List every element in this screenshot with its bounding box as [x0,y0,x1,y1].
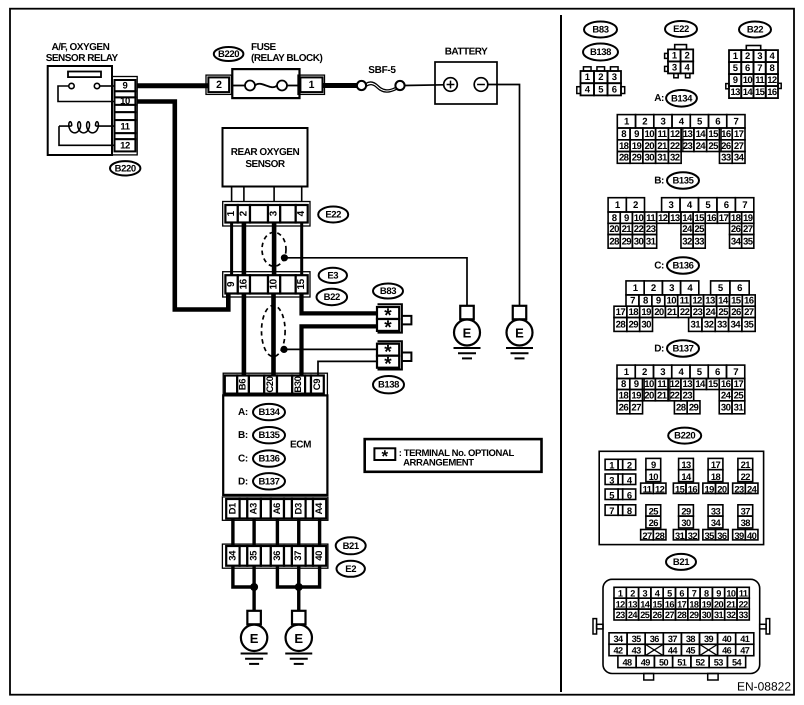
svg-text:37: 37 [668,634,678,644]
svg-text:19: 19 [632,141,642,152]
svg-text:A/F, OXYGEN: A/F, OXYGEN [51,42,109,53]
svg-text:16: 16 [721,129,731,140]
svg-text:30: 30 [721,402,731,413]
wire B21 pin36 to junction [277,566,298,587]
svg-text:3: 3 [668,200,673,211]
svg-text:6: 6 [627,489,632,500]
wire E22 pin2 to B22 pin16 [242,223,247,276]
svg-text:10: 10 [644,379,654,390]
shield junction node (upper) [281,255,287,261]
svg-text:20: 20 [644,390,654,401]
wire B21 pin37 to ground E [297,566,300,611]
svg-text:20: 20 [717,483,727,494]
sensor lead stubs to E22 [232,187,302,202]
svg-text:3: 3 [642,588,647,598]
pinout label B22 [739,22,771,38]
svg-text:*: * [384,318,392,339]
svg-text:2: 2 [238,210,249,216]
svg-text:10: 10 [726,588,736,598]
connector row B21 (pins 34 35 36 37 40) [222,544,328,568]
svg-text:12: 12 [616,599,626,609]
svg-text:24: 24 [706,307,717,318]
svg-text:10: 10 [644,129,654,140]
svg-text:25: 25 [649,506,659,517]
svg-text:9: 9 [624,213,629,224]
svg-text:8: 8 [627,505,632,516]
wire B21 pin40 to junction [299,566,320,587]
svg-text:11: 11 [657,379,667,390]
svg-text:3: 3 [757,51,762,62]
pinout connector E22 (4 pin) [665,45,694,78]
svg-text:B30: B30 [293,376,304,392]
svg-text:44: 44 [668,646,679,656]
svg-text:30: 30 [634,236,644,247]
svg-text:A3: A3 [249,503,260,514]
battery BAT1 [435,47,497,105]
svg-text:17: 17 [711,459,721,470]
rear oxygen sensor box [223,128,308,187]
pinout label B138 [583,44,618,61]
svg-text:24: 24 [747,483,758,494]
svg-text:15: 15 [694,213,705,224]
svg-text:9: 9 [634,379,639,390]
svg-text:30: 30 [641,320,651,331]
svg-text:FUSE: FUSE [251,42,277,53]
connector label B220 (fuse block) [214,47,244,61]
svg-text:27: 27 [743,224,753,235]
svg-text:B22: B22 [747,25,763,36]
svg-text:28: 28 [655,530,665,541]
svg-text:REAR OXYGEN: REAR OXYGEN [231,147,300,158]
svg-text:12: 12 [658,213,668,224]
relay K1 switch contacts [58,83,115,101]
connector B83 (schematic, optional terminals) [377,304,411,338]
connector label B220 (relay) [110,161,140,175]
svg-text:16: 16 [744,296,754,307]
svg-text:37: 37 [741,506,751,517]
svg-text:2: 2 [642,367,647,378]
svg-text:E22: E22 [673,24,689,35]
svg-text:SENSOR RELAY: SENSOR RELAY [46,53,119,64]
svg-text:12: 12 [655,483,665,494]
ECM connector key D: B137 [238,473,285,489]
svg-text:24: 24 [721,390,732,401]
svg-text:3: 3 [612,72,617,83]
svg-text:34: 34 [734,153,745,164]
svg-text:3: 3 [269,210,280,216]
svg-text:12: 12 [692,296,702,307]
svg-text:B220: B220 [115,163,136,174]
wire E22 pin3 to B22 pin10 [272,223,277,276]
svg-text:2: 2 [216,79,222,91]
pinout label B83 [584,22,617,38]
fuse terminal 2 [206,75,231,94]
svg-text:21: 21 [622,224,633,235]
wire fuse terminal 1 to fusible link SBF-5 [323,83,358,88]
svg-text:35: 35 [249,550,260,561]
relay K1 coil [59,122,115,146]
svg-text:16: 16 [707,213,717,224]
svg-text:45: 45 [686,646,696,656]
svg-text:14: 14 [640,599,651,609]
wire B22 pin15 to B83 pin 1 [302,294,378,314]
svg-text:51: 51 [677,657,687,667]
svg-text:34: 34 [614,634,625,644]
svg-text:33: 33 [721,153,731,164]
svg-text:24: 24 [628,610,639,620]
shield junction node (lower) [281,346,287,352]
fuse F1 in relay block [232,69,299,98]
svg-text:26: 26 [653,610,663,620]
svg-text:B138: B138 [378,380,399,391]
svg-text:2: 2 [627,460,632,471]
pinout grid B136 [614,281,755,332]
svg-text:9: 9 [651,459,656,470]
svg-text:16: 16 [721,379,731,390]
svg-text:2: 2 [642,116,647,127]
junction node (pins 34/35) [251,584,258,591]
svg-text:B:: B: [238,430,248,441]
svg-text:13: 13 [730,87,740,98]
svg-text:B135: B135 [672,176,694,187]
svg-text:37: 37 [293,551,304,561]
svg-text:34: 34 [227,550,238,561]
svg-text:16: 16 [238,278,249,289]
svg-text:25: 25 [708,141,719,152]
svg-text:B220: B220 [218,49,239,60]
svg-text:7: 7 [742,200,747,211]
wire E22 pin4 to B22 pin15 [300,223,303,276]
panel divider line [560,15,562,692]
svg-text:34: 34 [731,236,742,247]
wire B83 pin 2 to ECM B30 [302,326,378,375]
svg-text:13: 13 [670,213,680,224]
svg-text:B220: B220 [674,431,695,442]
svg-text:35: 35 [743,236,754,247]
svg-text:12: 12 [670,129,680,140]
svg-text:31: 31 [691,320,702,331]
svg-text:42: 42 [614,646,624,656]
ECM connector row (B6 C20 B30 C9) [223,373,327,395]
svg-text:14: 14 [743,87,754,98]
svg-text:9: 9 [123,81,128,92]
svg-text:B137: B137 [258,476,279,487]
svg-text:2: 2 [598,72,603,83]
svg-text:ARRANGEMENT: ARRANGEMENT [403,457,474,468]
svg-text:B135: B135 [258,430,280,441]
svg-text:15: 15 [675,483,685,494]
svg-text:B134: B134 [671,93,693,104]
svg-text:5: 5 [609,489,614,500]
drawing number EN-08822 [737,680,791,694]
svg-text:13: 13 [683,379,693,390]
svg-text:53: 53 [714,657,724,667]
pinout label E22 [665,21,697,37]
svg-text:23: 23 [683,141,693,152]
svg-text:B21: B21 [673,557,690,568]
connector row E22 (pins 1 2 3 4) [223,202,310,227]
fusible link SBF-5 [357,65,405,92]
wire relay pin 10 to connector B22 pin 9 [137,102,228,310]
svg-text:20: 20 [654,307,664,318]
svg-text:14: 14 [718,296,729,307]
svg-text:6: 6 [679,588,684,598]
connector label E3 [319,268,347,283]
svg-text:11: 11 [658,129,668,140]
svg-text:43: 43 [632,646,642,656]
svg-text:24: 24 [696,141,707,152]
svg-text:23: 23 [616,610,626,620]
svg-text:26: 26 [731,307,741,318]
svg-text:38: 38 [686,634,696,644]
svg-text:23: 23 [646,224,656,235]
svg-text:24: 24 [682,224,693,235]
pinout connector B21 (54 pin) [593,579,770,680]
svg-text:10: 10 [743,75,753,86]
svg-text:E: E [515,326,524,341]
ground E3 [454,306,481,359]
svg-text:*: * [384,354,392,375]
svg-text:22: 22 [680,307,690,318]
connector row B22 (pins 9 16 10 15) [223,272,310,297]
svg-text:33: 33 [739,610,749,620]
svg-text:27: 27 [642,530,652,541]
wire B22 pin10 to ECM C20 [271,294,276,376]
svg-text:14: 14 [696,129,707,140]
svg-text:B134: B134 [258,407,280,418]
svg-text:36: 36 [272,551,283,561]
svg-text:9: 9 [226,281,237,287]
svg-text:6: 6 [715,367,720,378]
svg-text:5: 5 [667,588,672,598]
wire E22 pin1 to B22 pin9 [230,223,233,276]
svg-text:31: 31 [734,402,745,413]
svg-text:46: 46 [722,646,732,656]
svg-text:E3: E3 [327,270,338,281]
svg-text:B136: B136 [258,454,279,465]
svg-text:11: 11 [755,75,765,86]
svg-text:16: 16 [665,599,675,609]
svg-text:11: 11 [739,588,748,598]
svg-text:3: 3 [660,367,665,378]
svg-text:D:: D: [238,476,248,487]
svg-text:13: 13 [628,599,638,609]
svg-text:17: 17 [677,599,687,609]
svg-text:B6: B6 [238,379,249,390]
svg-text:21: 21 [667,307,678,318]
relay K1 fixed contact bar [68,72,101,78]
svg-text:32: 32 [726,610,736,620]
wire shield to B138 pin 1 [284,348,377,350]
svg-text:17: 17 [616,307,626,318]
svg-text:21: 21 [741,459,751,470]
svg-text:15: 15 [708,129,719,140]
svg-text:13: 13 [705,296,715,307]
svg-text:C20: C20 [265,376,276,392]
svg-text:6: 6 [745,63,750,74]
svg-text:29: 29 [689,610,699,620]
svg-text:27: 27 [631,402,641,413]
svg-text:1: 1 [309,79,315,91]
svg-text:17: 17 [719,213,729,224]
svg-text:10: 10 [634,213,644,224]
svg-text:29: 29 [681,506,691,517]
svg-text:4: 4 [296,210,307,216]
svg-text:15: 15 [708,379,719,390]
svg-text:50: 50 [659,657,669,667]
svg-text:E22: E22 [325,210,341,221]
svg-text:22: 22 [670,141,680,152]
svg-text:16: 16 [767,87,777,98]
svg-text:23: 23 [734,483,744,494]
svg-text:7: 7 [757,63,762,74]
svg-text:18: 18 [629,307,640,318]
svg-text:C9: C9 [312,379,323,390]
junction node (pins 37/40) [295,584,302,591]
fuse block title [251,42,322,64]
svg-text:9: 9 [634,129,639,140]
relay K1 A/F oxygen sensor relay box [48,66,112,155]
svg-text:25: 25 [640,610,650,620]
connector label B138 [373,376,404,393]
svg-text:27: 27 [734,141,744,152]
svg-text:36: 36 [650,634,660,644]
svg-text:7: 7 [734,116,739,127]
svg-text:28: 28 [619,153,630,164]
ECM connector key B: B135 [238,427,285,443]
svg-text:22: 22 [741,471,751,482]
svg-text:2: 2 [633,200,638,211]
svg-text:1: 1 [609,460,614,471]
svg-text:11: 11 [680,296,690,307]
svg-text:17: 17 [734,129,744,140]
svg-text:E: E [463,326,472,341]
connector label B83 [373,284,403,299]
svg-text:E2: E2 [345,564,356,575]
svg-text:22: 22 [739,599,749,609]
svg-text:36: 36 [717,530,727,541]
svg-text:B21: B21 [343,541,360,552]
wire B22 pin16 to ECM B6 [242,294,247,376]
svg-text:2: 2 [630,588,635,598]
svg-text:11: 11 [646,213,656,224]
svg-text:1: 1 [226,210,237,216]
svg-text:31: 31 [657,153,668,164]
svg-text:33: 33 [717,320,727,331]
pinout label B220 [668,428,701,444]
svg-text:B22: B22 [324,292,340,303]
wire SBF-5 to battery positive [405,84,444,87]
svg-text:41: 41 [740,634,750,644]
svg-text:B83: B83 [592,25,608,36]
svg-text:2: 2 [745,51,750,62]
svg-text:B136: B136 [672,261,693,272]
pinout key C: B136 [654,257,699,273]
relay K1 title A/F, OXYGEN SENSOR RELAY [46,42,119,64]
svg-text:7: 7 [630,296,635,307]
svg-text:14: 14 [681,471,692,482]
svg-text:15: 15 [731,296,742,307]
svg-text:34: 34 [711,517,722,528]
svg-text:D1: D1 [227,502,238,514]
svg-text:29: 29 [629,320,639,331]
connector label B21 [336,537,366,554]
svg-text:C:: C: [238,454,248,465]
ECM U1 box [223,395,327,495]
connector B138 (schematic, optional terminals) [377,341,411,375]
svg-text:9: 9 [656,296,661,307]
svg-text:14: 14 [682,213,693,224]
svg-text:31: 31 [675,530,685,541]
pinout grid B137 [617,365,745,414]
wire shield to ground E3 [284,258,467,306]
svg-text:12: 12 [767,75,777,86]
svg-text:30: 30 [644,153,654,164]
svg-text:23: 23 [683,390,693,401]
svg-text:A4: A4 [314,502,325,514]
wire B21 pin35 to ground E [252,566,255,611]
svg-text:6: 6 [724,200,729,211]
svg-text:39: 39 [734,530,744,541]
svg-text:29: 29 [632,153,642,164]
svg-text:40: 40 [722,634,732,644]
svg-text:7: 7 [692,588,697,598]
svg-text:26: 26 [721,141,731,152]
svg-text:2: 2 [684,50,689,61]
svg-text:35: 35 [632,634,642,644]
svg-text:6: 6 [612,84,617,95]
svg-text:26: 26 [619,402,629,413]
wire B21 pin34 to junction [233,566,254,587]
svg-text:18: 18 [731,213,742,224]
svg-text:13: 13 [683,129,693,140]
svg-text:B138: B138 [590,47,611,58]
pinout block B220 (fuse/relay block) [599,451,763,544]
svg-text:25: 25 [718,307,729,318]
shield ellipse (upper) [262,232,286,266]
connector strip B220 on relay (pins 9-12) [112,77,137,155]
svg-text:32: 32 [704,320,714,331]
svg-text:10: 10 [666,296,676,307]
svg-text:E: E [250,631,259,646]
svg-text:21: 21 [657,390,668,401]
shield ellipse (lower) [262,305,286,356]
svg-text:D3: D3 [293,503,304,514]
svg-text:21: 21 [726,599,736,609]
ground E (left) [241,611,268,664]
svg-text:D:: D: [654,343,664,354]
svg-text:ECM: ECM [290,440,311,451]
svg-text:52: 52 [696,657,706,667]
svg-text:27: 27 [665,610,675,620]
svg-text:11: 11 [643,483,652,494]
pinout connector B22 (16 pin) [726,46,781,99]
svg-text:6: 6 [715,116,720,127]
note box: optional terminal arrangement [365,439,542,472]
svg-text:20: 20 [714,599,724,609]
svg-text:3: 3 [661,116,666,127]
pinout label B21 [666,554,696,570]
svg-text:3: 3 [609,474,614,485]
svg-text:25: 25 [734,390,745,401]
svg-text:40: 40 [747,530,757,541]
svg-text:7: 7 [609,505,614,516]
connector label E2 [337,561,365,577]
svg-text:SENSOR: SENSOR [245,159,286,170]
svg-text:48: 48 [623,657,633,667]
svg-text:8: 8 [704,588,709,598]
svg-text:26: 26 [731,224,741,235]
